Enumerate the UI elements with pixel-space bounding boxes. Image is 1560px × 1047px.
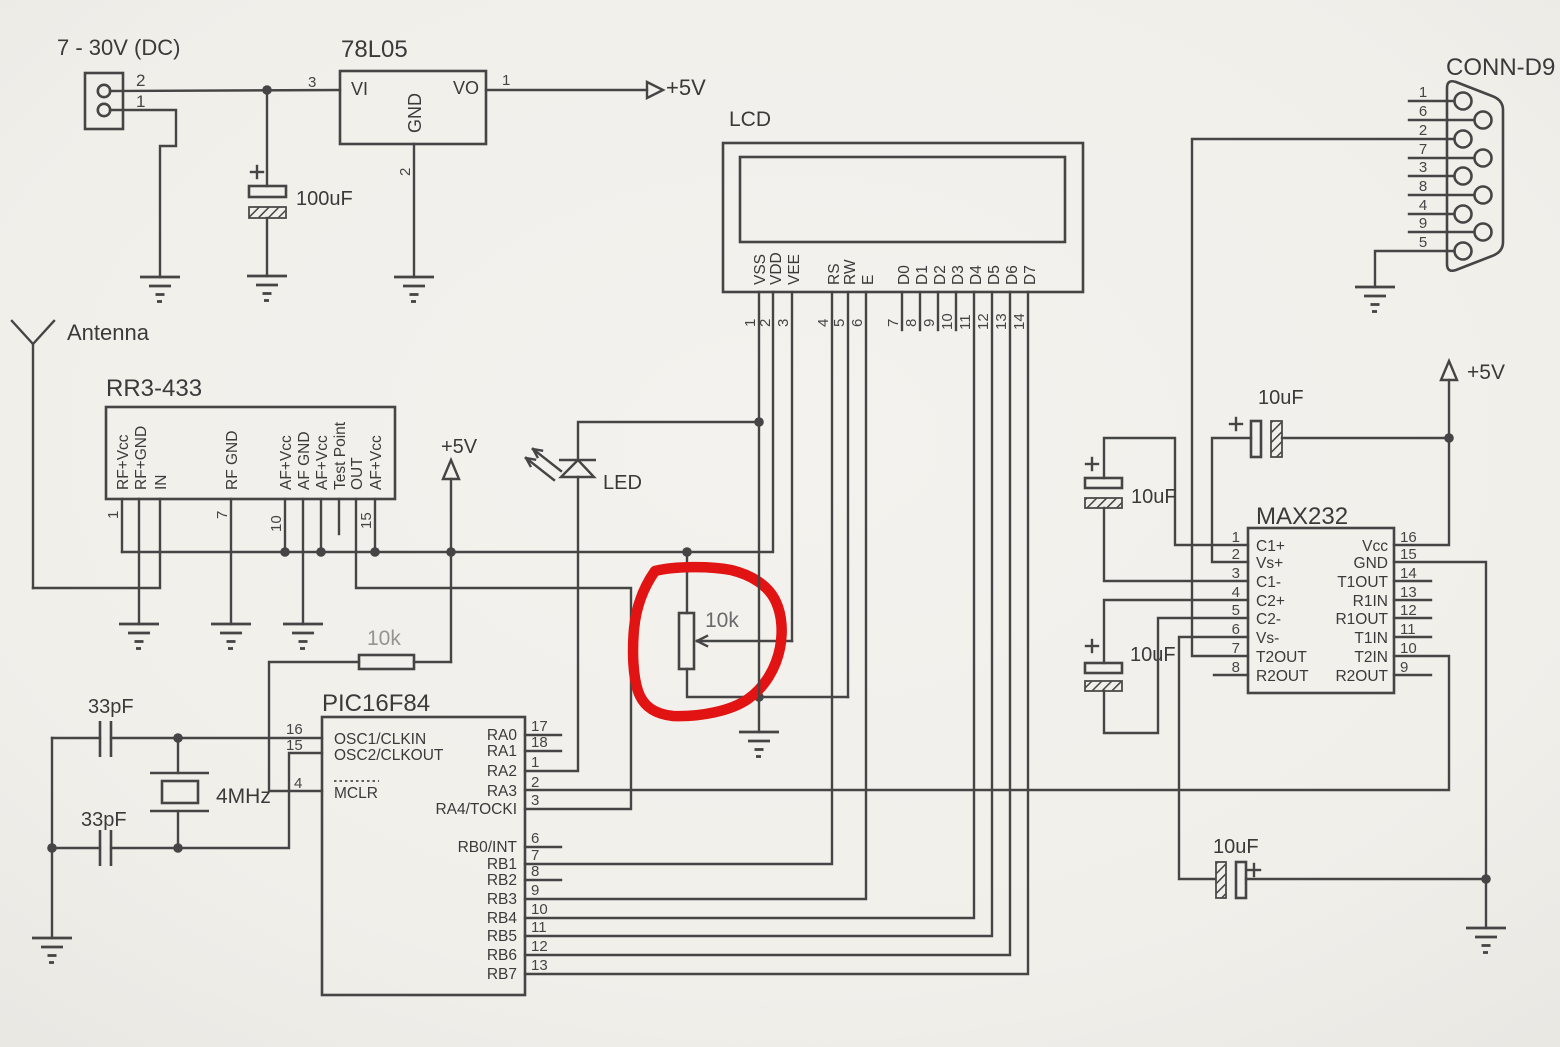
wire D9 pin9 stub (1409, 231, 1474, 233)
svg-text:12: 12 (1400, 602, 1417, 619)
wire LCD RS to PIC RB1 (525, 292, 832, 864)
svg-text:8: 8 (531, 863, 539, 880)
svg-text:18: 18 (531, 734, 548, 751)
wire MAX232 T2OUT to CONN-D9 pin2 (1192, 139, 1454, 656)
connector J2 CONN-D9 (1446, 54, 1555, 271)
svg-text:1: 1 (531, 754, 539, 771)
svg-text:E: E (860, 275, 877, 285)
svg-text:6: 6 (1232, 621, 1240, 638)
svg-text:3: 3 (1232, 565, 1240, 582)
svg-text:13: 13 (993, 313, 1010, 330)
svg-text:16: 16 (1400, 529, 1417, 546)
wire J1 pin2 to 78L05 VI (110, 90, 340, 91)
wire LCD D3 stub (955, 292, 957, 330)
svg-text:7: 7 (1419, 141, 1427, 158)
svg-text:R2OUT: R2OUT (1335, 668, 1388, 685)
wire MAX232 R1OUT stub (1394, 617, 1431, 619)
node crystal bottom (173, 843, 183, 853)
svg-text:RF GND: RF GND (224, 431, 241, 490)
wire LCD D4 to PIC RB4 (525, 292, 974, 918)
power +5V arrow mid (441, 436, 478, 479)
receiver module U3 RR3-433 (106, 375, 395, 499)
svg-text:D0: D0 (896, 265, 913, 285)
svg-text:T1OUT: T1OUT (1337, 574, 1388, 591)
ground MAX232 (1466, 928, 1506, 953)
wire MAX232 T1OUT stub (1394, 580, 1431, 582)
wire RR3 Test Point stub (338, 499, 340, 534)
wire RB0 stub (525, 846, 561, 848)
svg-text:9: 9 (531, 882, 539, 899)
svg-text:T1IN: T1IN (1354, 630, 1388, 647)
wire LCD D7 to PIC RB7 (525, 292, 1028, 974)
svg-text:LED: LED (603, 472, 642, 494)
svg-text:CONN-D9: CONN-D9 (1446, 54, 1555, 81)
svg-text:13: 13 (531, 957, 548, 974)
node LED at VSS line (754, 417, 764, 427)
svg-text:MAX232: MAX232 (1256, 503, 1348, 530)
svg-text:1: 1 (105, 511, 122, 519)
svg-text:5: 5 (1232, 602, 1240, 619)
wire LED cathode to VSS/ground node (578, 422, 759, 460)
svg-text:+5V: +5V (666, 75, 706, 100)
svg-text:RA4/TOCKI: RA4/TOCKI (435, 801, 517, 818)
wire RR3 AF GND to ground (302, 499, 304, 624)
svg-text:RA3: RA3 (487, 783, 517, 800)
svg-text:2: 2 (136, 71, 145, 90)
regulator U2 78L05 (340, 36, 486, 144)
svg-text:R1IN: R1IN (1353, 593, 1388, 610)
ground pot / LCD VSS (739, 732, 779, 757)
wire MAX232 R1IN stub (1394, 599, 1431, 601)
svg-text:C1-: C1- (1256, 574, 1281, 591)
ground RF+GND (119, 624, 159, 649)
capacitor C1 100uF (249, 166, 353, 276)
svg-text:10: 10 (268, 515, 285, 532)
wire C8 to ground net (1246, 878, 1486, 880)
svg-text:6: 6 (531, 830, 539, 847)
svg-text:1: 1 (136, 92, 145, 111)
svg-text:9: 9 (1400, 659, 1408, 676)
svg-text:7: 7 (1232, 640, 1240, 657)
node rail +5V arrow (446, 547, 456, 557)
svg-text:D7: D7 (1022, 265, 1039, 285)
svg-text:R2OUT: R2OUT (1256, 668, 1309, 685)
wire MAX232 C1+ to C6 top (1104, 438, 1248, 545)
svg-text:RB0/INT: RB0/INT (458, 839, 518, 856)
svg-text:16: 16 (286, 721, 303, 738)
wire D9 pin6 stub (1409, 119, 1474, 121)
wire 78L05 GND pin to ground (413, 144, 415, 277)
wire LCD D1 stub (919, 292, 921, 330)
svg-text:4: 4 (1419, 197, 1427, 214)
svg-text:4: 4 (1232, 584, 1240, 601)
svg-text:11: 11 (531, 919, 547, 936)
svg-text:RB1: RB1 (487, 856, 517, 873)
node caps left (47, 843, 57, 853)
wire LCD E to PIC RB3 (525, 292, 866, 899)
wire LCD D2 stub (937, 292, 939, 330)
svg-text:D1: D1 (914, 265, 931, 285)
potentiometer R2 10k contrast (679, 552, 792, 669)
svg-text:13: 13 (1400, 584, 1417, 601)
svg-text:D6: D6 (1004, 265, 1021, 285)
svg-text:12: 12 (975, 313, 992, 330)
svg-text:7: 7 (531, 847, 539, 864)
svg-text:RB6: RB6 (487, 947, 517, 964)
svg-text:VEE: VEE (786, 254, 803, 285)
svg-text:2: 2 (1232, 546, 1240, 563)
wire MAX232 Vs+ to C5 (1212, 438, 1251, 562)
svg-text:5: 5 (831, 319, 848, 327)
svg-text:11: 11 (957, 314, 974, 330)
svg-text:3: 3 (1419, 159, 1427, 176)
svg-text:C1+: C1+ (1256, 538, 1285, 555)
svg-text:4: 4 (294, 775, 302, 792)
svg-text:2: 2 (1419, 122, 1427, 139)
ground AF GND (283, 624, 323, 649)
antenna (12, 320, 150, 588)
svg-text:AF+Vcc: AF+Vcc (368, 435, 385, 490)
svg-text:10k: 10k (367, 627, 401, 650)
wire LCD D0 stub (901, 292, 903, 330)
wire +5V arrow to Vcc pin16 (1394, 380, 1449, 545)
svg-text:Vcc: Vcc (1362, 538, 1388, 555)
svg-text:6: 6 (1419, 103, 1427, 120)
svg-text:RB2: RB2 (487, 872, 517, 889)
svg-text:17: 17 (531, 718, 548, 735)
svg-text:78L05: 78L05 (341, 36, 408, 63)
svg-text:AF GND: AF GND (296, 431, 313, 490)
svg-text:R1OUT: R1OUT (1335, 611, 1388, 628)
svg-text:MCLR: MCLR (334, 785, 378, 802)
wire MAX232 R2OUT stub (1214, 674, 1248, 676)
ground 78L05 (394, 277, 434, 302)
svg-text:3: 3 (531, 792, 539, 809)
wire R1 left to PIC MCLR (269, 662, 359, 791)
wire OSC1 to crystal net (111, 737, 322, 739)
svg-text:33pF: 33pF (88, 696, 134, 718)
wire RR3 RF+GND to ground (138, 499, 140, 624)
svg-text:RF+GND: RF+GND (133, 426, 150, 490)
svg-text:12: 12 (531, 938, 548, 955)
wire OSC2 to crystal net (111, 753, 322, 848)
svg-text:AF+Vcc: AF+Vcc (314, 435, 331, 490)
svg-text:10k: 10k (705, 609, 739, 632)
svg-text:D2: D2 (932, 265, 949, 285)
wire pot bottom to ground and LCD RW (687, 669, 848, 697)
wire D9 pin3 stub (1409, 175, 1454, 177)
wire LED anode to PIC RA2 (525, 477, 578, 771)
node ground net C8 (1481, 874, 1491, 884)
svg-text:Vs-: Vs- (1256, 630, 1279, 647)
svg-text:14: 14 (1011, 313, 1028, 330)
svg-text:6: 6 (849, 319, 866, 327)
svg-text:OSC2/CLKOUT: OSC2/CLKOUT (334, 747, 444, 764)
svg-text:11: 11 (1400, 621, 1416, 638)
svg-text:PIC16F84: PIC16F84 (322, 690, 430, 717)
capacitor C2 33pF upper (52, 696, 134, 757)
power +5V arrow at regulator output (647, 75, 706, 100)
svg-text:GND: GND (405, 93, 425, 133)
wire D9 pin8 stub (1409, 194, 1474, 196)
wire LCD VEE to pot wiper (791, 292, 793, 641)
svg-text:+5V: +5V (1467, 361, 1505, 384)
svg-text:1: 1 (502, 72, 510, 89)
svg-text:D3: D3 (950, 265, 967, 285)
wire VO to +5V (486, 89, 647, 91)
wire LCD RW to ground net (847, 292, 849, 697)
wire PIC RA3 to MAX232 T2IN (525, 656, 1449, 790)
wire MAX232 C2- to C7 bottom (1104, 618, 1248, 733)
svg-text:10uF: 10uF (1130, 644, 1176, 666)
ground J1 (140, 277, 180, 302)
svg-text:100uF: 100uF (296, 188, 353, 210)
crystal X1 4MHz (150, 738, 271, 848)
svg-text:RR3-433: RR3-433 (106, 375, 202, 402)
svg-text:RW: RW (842, 259, 859, 285)
wire +5V arrow down to 10k (450, 479, 452, 662)
led D1 (526, 449, 642, 494)
svg-text:VSS: VSS (752, 254, 769, 285)
wire input node to C1 (266, 90, 268, 186)
svg-text:RF+Vcc: RF+Vcc (115, 434, 132, 490)
svg-text:1: 1 (1232, 529, 1240, 546)
svg-text:C2-: C2- (1256, 611, 1281, 628)
svg-text:OUT: OUT (349, 457, 366, 490)
capacitor C8 10uF (1213, 836, 1260, 898)
wire MAX232 GND pin15 to ground (1394, 562, 1486, 928)
svg-text:10uF: 10uF (1258, 387, 1304, 409)
svg-text:7: 7 (885, 319, 902, 327)
svg-text:RB7: RB7 (487, 966, 517, 983)
node +5V MAX232 (1444, 433, 1454, 443)
node rail AF+Vcc15 (370, 547, 380, 557)
svg-text:+5V: +5V (441, 436, 478, 458)
svg-text:7: 7 (214, 511, 231, 519)
wire R1 right to +5V (414, 661, 451, 663)
svg-text:1: 1 (1419, 84, 1427, 101)
mcu U4 PIC16F84 (322, 690, 525, 995)
ground RF GND (211, 624, 251, 649)
svg-text:33pF: 33pF (81, 809, 127, 831)
svg-text:RA1: RA1 (487, 743, 517, 760)
svg-text:T2IN: T2IN (1354, 649, 1388, 666)
wire MAX232 C2+ to C7 top (1104, 600, 1248, 663)
wire antenna to RR3-433 IN (33, 499, 160, 588)
wire MAX232 T1IN stub (1394, 636, 1431, 638)
wire RA0 stub (525, 734, 561, 736)
wire MAX232 R2OUT pin9 stub (1394, 674, 1431, 676)
svg-text:RB5: RB5 (487, 928, 517, 945)
svg-text:10: 10 (939, 313, 956, 330)
svg-text:C2+: C2+ (1256, 593, 1285, 610)
node pot bottom at ground line (754, 692, 764, 702)
wire RR3 OUT to PIC RA4/TOCKI (356, 499, 631, 809)
wire LCD D5 to PIC RB5 (525, 292, 992, 936)
svg-text:14: 14 (1400, 565, 1417, 582)
svg-text:9: 9 (1419, 215, 1427, 232)
svg-text:OSC1/CLKIN: OSC1/CLKIN (334, 731, 426, 748)
wire RB2 stub (525, 879, 561, 881)
ground D9 (1355, 287, 1395, 312)
svg-text:10: 10 (531, 901, 548, 918)
capacitor C7 10uF (1085, 640, 1176, 691)
display U5 LCD (723, 108, 1083, 292)
svg-text:VI: VI (351, 79, 368, 99)
capacitor C6 10uF (1085, 458, 1177, 508)
svg-text:RA0: RA0 (487, 727, 518, 744)
wire +5V rail to LCD VDD (122, 292, 773, 552)
wire D9 pin7 stub (1409, 157, 1474, 159)
wire RR3 AF+Vcc pin15 to rail (374, 499, 376, 552)
wire RR3 AF+Vcc pin10 to rail (284, 499, 286, 552)
wire RR3 AF+Vcc pin12 to rail (320, 499, 322, 552)
svg-text:2: 2 (531, 774, 539, 791)
ground crystal caps (32, 938, 72, 963)
svg-text:LCD: LCD (729, 108, 771, 131)
capacitor C3 33pF lower (52, 809, 127, 866)
wire LCD D6 to PIC RB6 (525, 292, 1010, 955)
ground C1 (247, 276, 287, 301)
node crystal top (173, 733, 183, 743)
svg-text:RB4: RB4 (487, 910, 518, 927)
svg-text:8: 8 (903, 319, 920, 327)
svg-text:Antenna: Antenna (67, 320, 150, 345)
wire D9 pin5 to ground (1375, 251, 1454, 287)
wire J1 pin1 to ground (110, 110, 176, 277)
node rail pot top (682, 547, 692, 557)
svg-text:8: 8 (1232, 659, 1240, 676)
driver U6 MAX232 (1248, 503, 1394, 693)
svg-text:IN: IN (153, 475, 170, 491)
wire RA1 stub (525, 750, 561, 752)
svg-text:D5: D5 (986, 265, 1003, 285)
node rail AF+Vcc10 (280, 547, 290, 557)
wire RR3 RF GND to ground (230, 499, 232, 624)
svg-text:RS: RS (826, 263, 843, 285)
svg-text:10: 10 (1400, 640, 1417, 657)
svg-text:3: 3 (775, 319, 792, 327)
svg-text:10uF: 10uF (1213, 836, 1259, 858)
svg-text:2: 2 (397, 168, 414, 176)
svg-text:4MHz: 4MHz (216, 785, 271, 808)
svg-text:15: 15 (358, 512, 375, 529)
svg-text:5: 5 (1419, 234, 1427, 251)
svg-text:15: 15 (1400, 546, 1417, 563)
svg-text:RB3: RB3 (487, 891, 517, 908)
svg-text:4: 4 (815, 319, 832, 327)
capacitor C5 10uF (1230, 387, 1304, 457)
wire C5 to +5V node (1282, 437, 1449, 439)
svg-text:Test Point: Test Point (332, 421, 349, 490)
svg-text:VDD: VDD (768, 252, 785, 285)
wire caps common to ground (51, 738, 53, 938)
red marker annotation circle around pot (633, 567, 782, 716)
svg-text:T2OUT: T2OUT (1256, 649, 1307, 666)
svg-text:8: 8 (1419, 178, 1427, 195)
wire D9 pin1 stub (1409, 100, 1454, 102)
node input junction (262, 85, 272, 95)
resistor R1 10k MCLR pullup (359, 627, 414, 669)
svg-text:10uF: 10uF (1131, 486, 1177, 508)
svg-text:RA2: RA2 (487, 763, 517, 780)
svg-text:AF+Vcc: AF+Vcc (278, 435, 295, 490)
node rail AF+Vcc12 (316, 547, 326, 557)
wire RR3 RF+Vcc to +5V rail (121, 499, 123, 552)
svg-text:3: 3 (308, 74, 316, 91)
wire MAX232 Vs- to C8 (1179, 637, 1248, 879)
svg-text:D4: D4 (968, 265, 985, 285)
svg-text:15: 15 (286, 737, 303, 754)
power +5V arrow right (1441, 361, 1505, 384)
connector J1 7-30V DC input (57, 35, 180, 129)
wire D9 pin4 stub (1409, 213, 1454, 215)
svg-text:GND: GND (1354, 555, 1388, 572)
svg-text:7 - 30V (DC): 7 - 30V (DC) (57, 35, 180, 60)
svg-text:9: 9 (921, 319, 938, 327)
svg-text:VO: VO (453, 78, 479, 98)
wire LCD VSS to ground (758, 292, 760, 732)
wire MAX232 C1- to C6 bottom (1104, 508, 1248, 581)
svg-text:Vs+: Vs+ (1256, 555, 1283, 572)
